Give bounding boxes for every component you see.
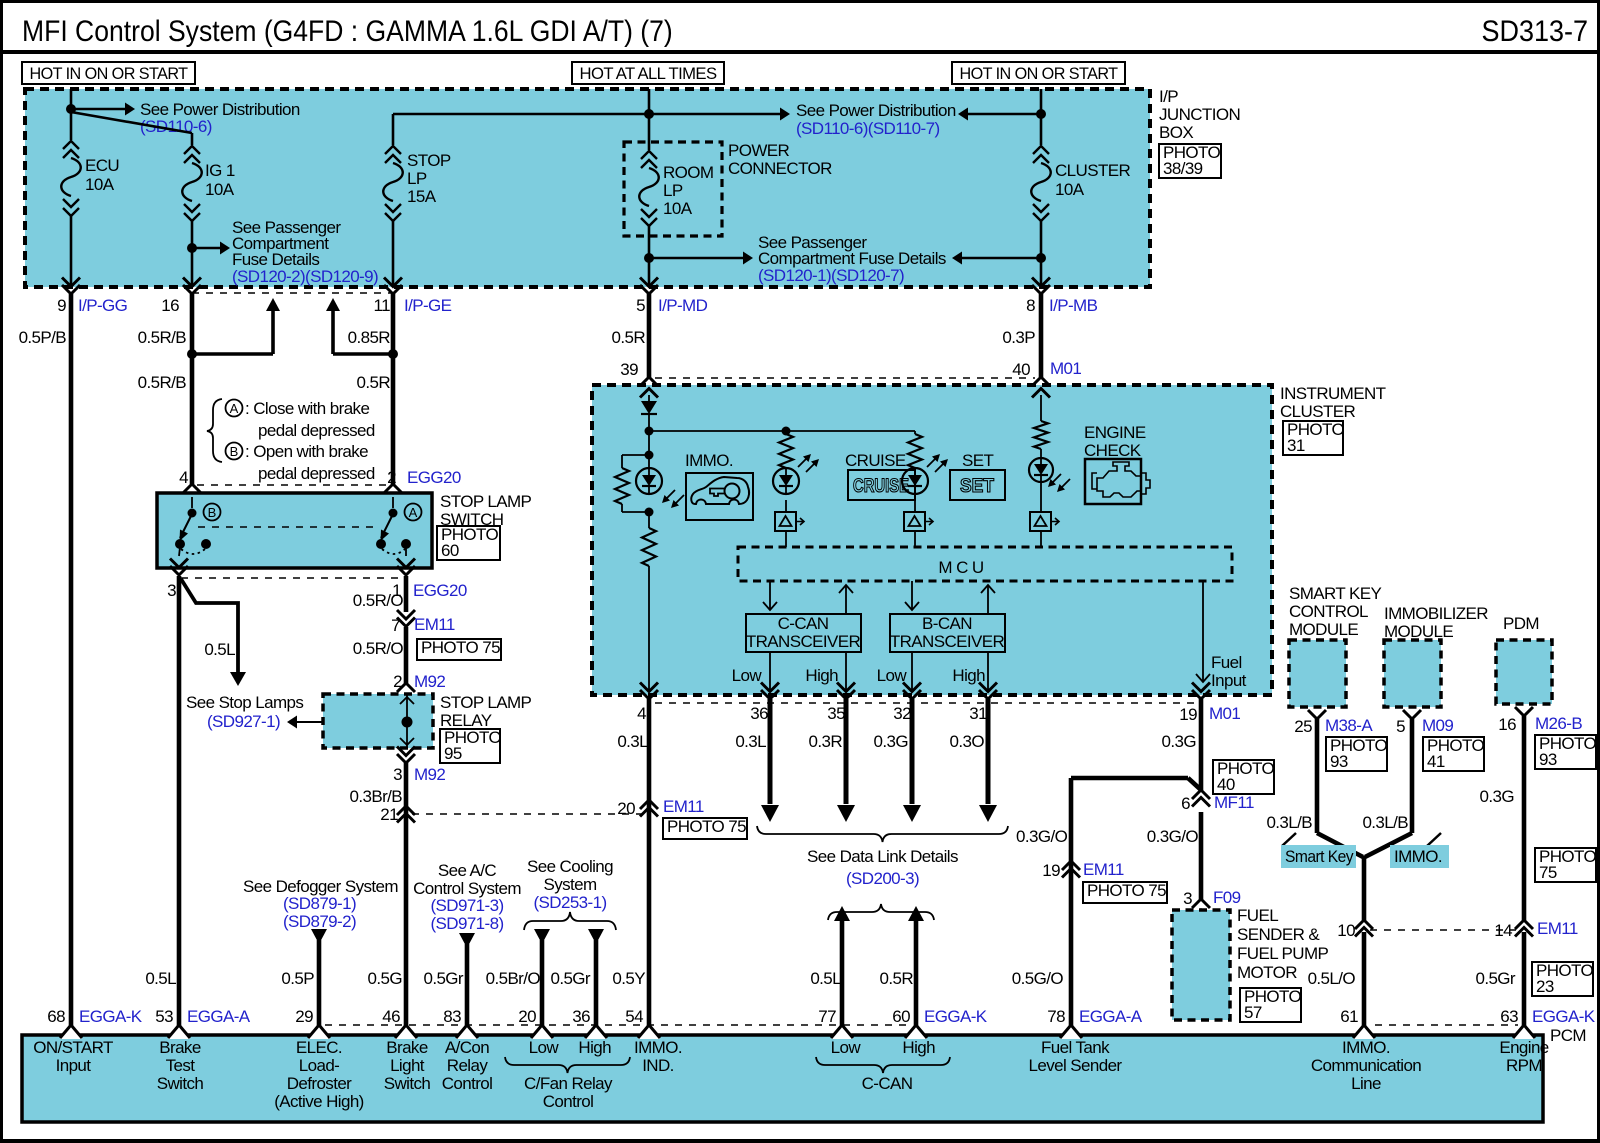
svg-text:0.5R/B: 0.5R/B xyxy=(138,328,187,347)
svg-text:PCM: PCM xyxy=(1550,1026,1586,1045)
svg-text:SENDER &: SENDER & xyxy=(1237,925,1320,944)
svg-text:(SD927-1): (SD927-1) xyxy=(207,712,280,731)
svg-text:(SD200-3): (SD200-3) xyxy=(846,869,919,888)
svg-text:See Power Distribution: See Power Distribution xyxy=(796,101,956,120)
svg-text:I/P-GG: I/P-GG xyxy=(78,296,127,315)
svg-text:57: 57 xyxy=(1244,1003,1262,1022)
svg-text:CONTROL: CONTROL xyxy=(1289,602,1368,621)
svg-text:ON/START: ON/START xyxy=(33,1038,113,1057)
svg-text:Fuel Tank: Fuel Tank xyxy=(1041,1038,1110,1057)
svg-text:System: System xyxy=(543,875,597,894)
svg-text:(SD253-1): (SD253-1) xyxy=(533,893,606,912)
svg-text:Switch: Switch xyxy=(157,1074,204,1093)
svg-text:Engine: Engine xyxy=(1499,1038,1548,1057)
svg-text:0.5Gr: 0.5Gr xyxy=(1475,969,1515,988)
svg-text:pedal depressed: pedal depressed xyxy=(258,421,375,440)
svg-text:High: High xyxy=(578,1038,611,1057)
svg-text:INSTRUMENT: INSTRUMENT xyxy=(1280,384,1386,403)
svg-text:61: 61 xyxy=(1340,1007,1358,1026)
svg-text:0.5L: 0.5L xyxy=(810,969,841,988)
svg-text:EGGA-K: EGGA-K xyxy=(79,1007,143,1026)
svg-text:MODULE: MODULE xyxy=(1384,622,1453,641)
svg-text:32: 32 xyxy=(893,704,911,723)
svg-text:SET: SET xyxy=(960,476,994,497)
svg-text:Line: Line xyxy=(1351,1074,1381,1093)
svg-text:F09: F09 xyxy=(1213,888,1241,907)
svg-text:: Open with brake: : Open with brake xyxy=(245,442,368,461)
svg-text:3: 3 xyxy=(393,765,402,784)
svg-text:M09: M09 xyxy=(1422,716,1453,735)
svg-text:Control: Control xyxy=(543,1092,594,1111)
svg-text:I/P: I/P xyxy=(1159,87,1178,106)
svg-text:C-CAN: C-CAN xyxy=(862,1074,913,1093)
svg-text:0.3G/O: 0.3G/O xyxy=(1016,827,1068,846)
svg-text:MOTOR: MOTOR xyxy=(1237,963,1297,982)
svg-text:ECU: ECU xyxy=(85,156,119,175)
svg-text:High: High xyxy=(902,1038,935,1057)
svg-text:0.3G: 0.3G xyxy=(874,732,908,751)
svg-text:TRANSCEIVER: TRANSCEIVER xyxy=(890,632,1005,651)
svg-text:See A/C: See A/C xyxy=(438,861,496,880)
svg-text:Control: Control xyxy=(442,1074,493,1093)
svg-text:25: 25 xyxy=(1294,717,1312,736)
svg-text:Communication: Communication xyxy=(1311,1056,1421,1075)
svg-text:Smart Key: Smart Key xyxy=(1285,847,1354,866)
svg-text:Load-: Load- xyxy=(299,1056,339,1075)
svg-text:IMMO.: IMMO. xyxy=(1394,847,1442,866)
svg-text:19: 19 xyxy=(1042,861,1060,880)
svg-text:See Data Link Details: See Data Link Details xyxy=(807,847,958,866)
svg-text:BOX: BOX xyxy=(1159,123,1193,142)
svg-text:0.3L/B: 0.3L/B xyxy=(1266,813,1312,832)
svg-text:5: 5 xyxy=(1396,717,1405,736)
svg-text:SET: SET xyxy=(962,451,993,470)
svg-text:A/Con: A/Con xyxy=(445,1038,489,1057)
svg-text:78: 78 xyxy=(1047,1007,1065,1026)
svg-text:36: 36 xyxy=(572,1007,590,1026)
svg-text:0.5P/B: 0.5P/B xyxy=(19,328,67,347)
svg-text:0.5R/O: 0.5R/O xyxy=(353,591,404,610)
svg-text:STOP: STOP xyxy=(407,151,451,170)
svg-text:RPM: RPM xyxy=(1506,1056,1542,1075)
svg-text:20: 20 xyxy=(617,799,635,818)
svg-text:IMMO.: IMMO. xyxy=(1342,1038,1390,1057)
svg-text:Switch: Switch xyxy=(384,1074,431,1093)
svg-text:See Stop Lamps: See Stop Lamps xyxy=(186,693,303,712)
svg-text:68: 68 xyxy=(47,1007,65,1026)
svg-text:Input: Input xyxy=(1211,671,1247,690)
svg-text:5: 5 xyxy=(636,296,645,315)
svg-text:M C U: M C U xyxy=(938,558,983,577)
svg-text:EGGA-A: EGGA-A xyxy=(187,1007,251,1026)
svg-text:39: 39 xyxy=(620,360,638,379)
svg-text:EGGA-A: EGGA-A xyxy=(1079,1007,1143,1026)
svg-text:15A: 15A xyxy=(407,187,437,206)
svg-text:0.5G/O: 0.5G/O xyxy=(1012,969,1064,988)
svg-text:I/P-MB: I/P-MB xyxy=(1049,296,1098,315)
svg-text:14: 14 xyxy=(1494,921,1512,940)
svg-text:M26-B: M26-B xyxy=(1535,714,1582,733)
svg-text:B: B xyxy=(230,444,239,459)
svg-text:JUNCTION: JUNCTION xyxy=(1159,105,1240,124)
svg-text:C-CAN: C-CAN xyxy=(778,614,829,633)
svg-text:0.3L: 0.3L xyxy=(617,732,648,751)
svg-text:40: 40 xyxy=(1012,360,1030,379)
svg-text:16: 16 xyxy=(1498,715,1516,734)
svg-text:0.3O: 0.3O xyxy=(950,732,985,751)
svg-text:PHOTO 75: PHOTO 75 xyxy=(1087,881,1166,900)
svg-text:38/39: 38/39 xyxy=(1163,159,1203,178)
svg-text:M92: M92 xyxy=(414,765,445,784)
svg-text:B: B xyxy=(208,505,217,520)
svg-text:HOT IN ON OR START: HOT IN ON OR START xyxy=(30,64,188,83)
svg-text:M38-A: M38-A xyxy=(1325,716,1373,735)
svg-text:(SD120-1)(SD120-7): (SD120-1)(SD120-7) xyxy=(758,266,904,285)
svg-text:B-CAN: B-CAN xyxy=(922,614,972,633)
svg-text:SMART KEY: SMART KEY xyxy=(1289,584,1381,603)
svg-text:LP: LP xyxy=(663,181,683,200)
svg-text:MODULE: MODULE xyxy=(1289,620,1358,639)
svg-text:31: 31 xyxy=(1287,436,1305,455)
svg-text:7: 7 xyxy=(391,616,400,635)
svg-text:0.5Y: 0.5Y xyxy=(612,969,645,988)
svg-text:0.3R: 0.3R xyxy=(808,732,842,751)
svg-text:0.5Gr: 0.5Gr xyxy=(550,969,590,988)
svg-text:77: 77 xyxy=(818,1007,836,1026)
svg-text:EGGA-K: EGGA-K xyxy=(924,1007,988,1026)
svg-text:PHOTO 75: PHOTO 75 xyxy=(667,817,746,836)
svg-text:LP: LP xyxy=(407,169,427,188)
svg-text:(SD120-2)(SD120-9): (SD120-2)(SD120-9) xyxy=(232,267,378,286)
svg-text:11: 11 xyxy=(374,296,391,315)
svg-text:0.3G: 0.3G xyxy=(1162,732,1196,751)
svg-text:A: A xyxy=(409,505,418,520)
svg-text:83: 83 xyxy=(443,1007,461,1026)
svg-text:8: 8 xyxy=(1026,296,1035,315)
svg-text:Light: Light xyxy=(390,1056,425,1075)
svg-text:75: 75 xyxy=(1539,863,1557,882)
svg-text:19: 19 xyxy=(1179,705,1197,724)
svg-text:10A: 10A xyxy=(85,175,115,194)
svg-text:POWER: POWER xyxy=(728,141,790,160)
svg-text:Level Sender: Level Sender xyxy=(1029,1056,1123,1075)
svg-text:0.5L/O: 0.5L/O xyxy=(1308,969,1356,988)
svg-text:40: 40 xyxy=(1217,775,1235,794)
svg-text:3: 3 xyxy=(1183,889,1192,908)
svg-text:C/Fan Relay: C/Fan Relay xyxy=(524,1074,613,1093)
svg-text:CRUISE: CRUISE xyxy=(853,476,909,497)
svg-text:IND.: IND. xyxy=(642,1056,674,1075)
svg-text:Test: Test xyxy=(166,1056,196,1075)
svg-text:STOP LAMP: STOP LAMP xyxy=(440,693,532,712)
svg-text:41: 41 xyxy=(1427,752,1445,771)
svg-text:See Cooling: See Cooling xyxy=(527,857,613,876)
svg-text:3: 3 xyxy=(167,581,176,600)
svg-text:Low: Low xyxy=(529,1038,560,1057)
svg-text:M92: M92 xyxy=(414,672,445,691)
svg-text:IMMO.: IMMO. xyxy=(634,1038,682,1057)
svg-text:9: 9 xyxy=(57,296,66,315)
svg-text:ELEC.: ELEC. xyxy=(296,1038,342,1057)
svg-text:36: 36 xyxy=(750,704,768,723)
svg-text:0.3G: 0.3G xyxy=(1480,787,1514,806)
svg-text:0.3L: 0.3L xyxy=(735,732,766,751)
svg-text:2: 2 xyxy=(393,672,402,691)
svg-text:Brake: Brake xyxy=(386,1038,428,1057)
svg-text:10A: 10A xyxy=(205,180,235,199)
svg-text:0.3Br/B: 0.3Br/B xyxy=(350,787,403,806)
svg-text:0.5R/O: 0.5R/O xyxy=(353,639,404,658)
svg-text:EM11: EM11 xyxy=(1083,860,1124,879)
svg-text:10: 10 xyxy=(1337,921,1355,940)
svg-text:10A: 10A xyxy=(663,199,693,218)
svg-text:Defroster: Defroster xyxy=(287,1074,352,1093)
svg-text:Low: Low xyxy=(732,666,763,685)
svg-text:21: 21 xyxy=(380,805,398,824)
svg-text:Brake: Brake xyxy=(159,1038,201,1057)
svg-text:54: 54 xyxy=(625,1007,643,1026)
svg-text:0.5L: 0.5L xyxy=(204,640,235,659)
svg-text:0.5P: 0.5P xyxy=(281,969,314,988)
svg-text:TRANSCEIVER: TRANSCEIVER xyxy=(746,632,861,651)
svg-text:I/P-MD: I/P-MD xyxy=(658,296,708,315)
svg-text:4: 4 xyxy=(637,704,646,723)
svg-text:0.5L: 0.5L xyxy=(145,969,176,988)
svg-text:MF11: MF11 xyxy=(1214,793,1254,812)
svg-text:CONNECTOR: CONNECTOR xyxy=(728,159,832,178)
svg-text:23: 23 xyxy=(1536,977,1554,996)
svg-text:0.3P: 0.3P xyxy=(1002,328,1035,347)
svg-text:0.5G: 0.5G xyxy=(368,969,402,988)
svg-text:CLUSTER: CLUSTER xyxy=(1055,161,1130,180)
svg-text:60: 60 xyxy=(892,1007,910,1026)
svg-text:(Active High): (Active High) xyxy=(274,1092,364,1111)
svg-text:I/P-GE: I/P-GE xyxy=(404,296,452,315)
svg-text:35: 35 xyxy=(827,704,845,723)
svg-text:EM11: EM11 xyxy=(1537,919,1578,938)
svg-text:MFI Control System (G4FD : GAM: MFI Control System (G4FD : GAMMA 1.6L GD… xyxy=(22,15,673,49)
svg-text:ENGINE: ENGINE xyxy=(1084,423,1146,442)
svg-text:pedal depressed: pedal depressed xyxy=(258,464,375,483)
svg-text:HOT AT ALL TIMES: HOT AT ALL TIMES xyxy=(580,64,717,83)
svg-text:CLUSTER: CLUSTER xyxy=(1280,402,1355,421)
svg-text:Input: Input xyxy=(56,1056,92,1075)
svg-text:60: 60 xyxy=(441,541,459,560)
svg-text:EM11: EM11 xyxy=(414,615,455,634)
svg-text:EGGA-K: EGGA-K xyxy=(1532,1007,1596,1026)
svg-text:IMMOBILIZER: IMMOBILIZER xyxy=(1384,604,1488,623)
svg-text:Low: Low xyxy=(831,1038,862,1057)
svg-text:SD313-7: SD313-7 xyxy=(1482,15,1588,49)
svg-text:0.5R: 0.5R xyxy=(611,328,645,347)
svg-text:FUEL PUMP: FUEL PUMP xyxy=(1237,944,1329,963)
svg-text:EGG20: EGG20 xyxy=(413,581,467,600)
svg-text:63: 63 xyxy=(1500,1007,1518,1026)
svg-text:20: 20 xyxy=(518,1007,536,1026)
svg-text:0.5R: 0.5R xyxy=(879,969,913,988)
svg-text:93: 93 xyxy=(1539,750,1557,769)
svg-text:EM11: EM11 xyxy=(663,797,704,816)
svg-text:46: 46 xyxy=(382,1007,400,1026)
svg-text:STOP LAMP: STOP LAMP xyxy=(440,492,532,511)
svg-text:10A: 10A xyxy=(1055,180,1085,199)
svg-text:4: 4 xyxy=(179,468,188,487)
svg-text:ROOM: ROOM xyxy=(663,163,713,182)
svg-text:CHECK: CHECK xyxy=(1084,441,1142,460)
svg-text:HOT IN ON OR START: HOT IN ON OR START xyxy=(960,64,1118,83)
svg-text:6: 6 xyxy=(1181,794,1190,813)
svg-text:Low: Low xyxy=(877,666,908,685)
svg-text:Relay: Relay xyxy=(447,1056,489,1075)
svg-text:IMMO.: IMMO. xyxy=(685,451,733,470)
svg-text:53: 53 xyxy=(155,1007,173,1026)
svg-text:M01: M01 xyxy=(1050,359,1081,378)
svg-text:(SD971-8): (SD971-8) xyxy=(430,914,503,933)
svg-text:(SD879-2): (SD879-2) xyxy=(283,912,356,931)
svg-text:29: 29 xyxy=(295,1007,313,1026)
svg-text:16: 16 xyxy=(161,296,179,315)
svg-text:IG 1: IG 1 xyxy=(205,161,235,180)
svg-text:A: A xyxy=(230,401,239,416)
svg-text:95: 95 xyxy=(444,744,462,763)
svg-text:(SD971-3): (SD971-3) xyxy=(430,896,503,915)
svg-text:High: High xyxy=(805,666,838,685)
svg-text:0.5R: 0.5R xyxy=(356,373,390,392)
svg-text:PHOTO 75: PHOTO 75 xyxy=(421,638,500,657)
svg-text:(SD879-1): (SD879-1) xyxy=(283,894,356,913)
svg-text:0.5R/B: 0.5R/B xyxy=(138,373,187,392)
svg-text:0.85R: 0.85R xyxy=(348,328,391,347)
svg-text:0.3L/B: 0.3L/B xyxy=(1362,813,1408,832)
svg-text:CRUISE: CRUISE xyxy=(845,451,906,470)
svg-text:PDM: PDM xyxy=(1503,614,1539,633)
svg-text:0.3G/O: 0.3G/O xyxy=(1147,827,1199,846)
svg-text:0.5Br/O: 0.5Br/O xyxy=(486,969,541,988)
svg-text:FUEL: FUEL xyxy=(1237,906,1278,925)
svg-text:(SD110-6)(SD110-7): (SD110-6)(SD110-7) xyxy=(796,119,940,138)
svg-text:93: 93 xyxy=(1330,752,1348,771)
svg-text:Fuel: Fuel xyxy=(1211,653,1242,672)
svg-text:: Close with brake: : Close with brake xyxy=(245,399,369,418)
svg-text:M01: M01 xyxy=(1209,704,1240,723)
svg-text:31: 31 xyxy=(969,704,987,723)
svg-text:0.5Gr: 0.5Gr xyxy=(423,969,463,988)
svg-text:EGG20: EGG20 xyxy=(407,468,461,487)
